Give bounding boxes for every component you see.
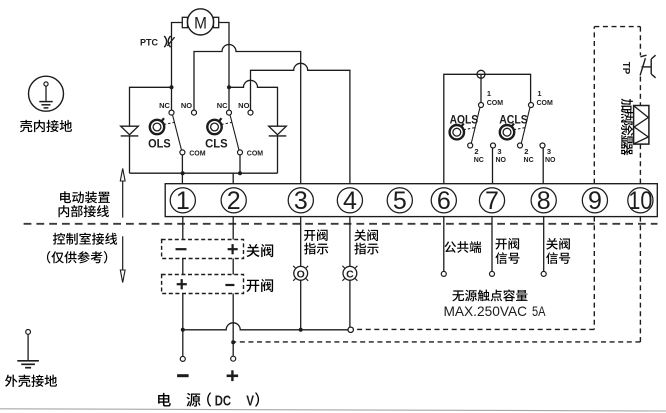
svg-text:NC: NC — [217, 101, 228, 110]
svg-text:NC: NC — [524, 157, 534, 164]
svg-text:NO: NO — [238, 101, 249, 110]
svg-text:COM: COM — [247, 150, 263, 157]
svg-text:5: 5 — [393, 187, 407, 215]
svg-text:10: 10 — [628, 187, 652, 215]
svg-text:1: 1 — [537, 89, 541, 98]
svg-text:NC: NC — [159, 101, 170, 110]
svg-text:7: 7 — [485, 187, 499, 215]
svg-text:2: 2 — [227, 187, 241, 215]
svg-text:2: 2 — [524, 147, 528, 156]
svg-text:COM: COM — [487, 100, 504, 107]
svg-text:COM: COM — [537, 100, 554, 107]
svg-text:V: V — [246, 393, 254, 410]
svg-text:4: 4 — [343, 187, 357, 215]
svg-text:NO: NO — [495, 157, 506, 164]
svg-text:NO: NO — [545, 157, 556, 164]
svg-text:PTC: PTC — [140, 38, 159, 48]
svg-text:MAX.250VAC: MAX.250VAC — [444, 303, 528, 319]
svg-text:1: 1 — [176, 187, 190, 215]
svg-text:AOLS: AOLS — [450, 115, 479, 127]
svg-text:TP: TP — [620, 62, 632, 74]
svg-text:OLS: OLS — [148, 136, 171, 150]
svg-text:M: M — [194, 14, 207, 32]
svg-text:9: 9 — [588, 187, 602, 215]
svg-text:3: 3 — [547, 147, 551, 156]
svg-text:ACLS: ACLS — [499, 115, 528, 127]
svg-text:C: C — [346, 268, 354, 280]
svg-text:6: 6 — [437, 187, 451, 215]
svg-text:NO: NO — [181, 101, 192, 110]
svg-text:3: 3 — [294, 187, 308, 215]
svg-text:O: O — [297, 268, 305, 280]
svg-text:COM: COM — [189, 150, 206, 157]
svg-text:2: 2 — [474, 147, 478, 156]
svg-text:1: 1 — [487, 89, 491, 98]
svg-text:DC: DC — [215, 393, 231, 410]
svg-text:NC: NC — [474, 157, 484, 164]
svg-text:5A: 5A — [532, 303, 546, 319]
svg-text:8: 8 — [537, 187, 551, 215]
svg-text:CLS: CLS — [205, 136, 228, 150]
svg-text:3: 3 — [497, 147, 501, 156]
